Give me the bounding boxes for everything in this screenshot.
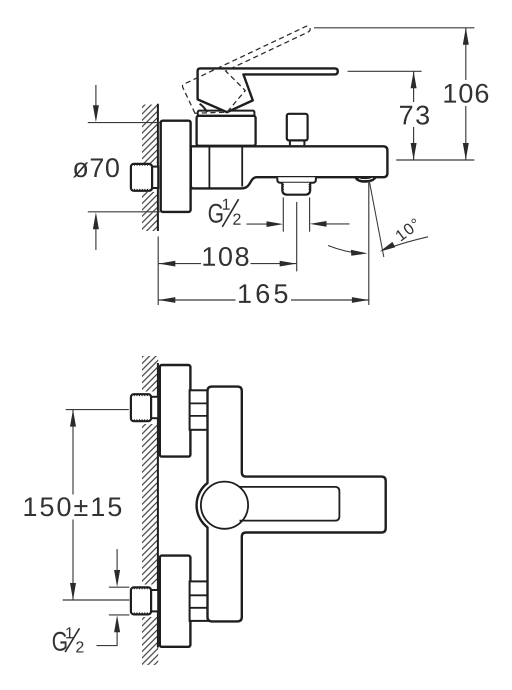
label 108 [203, 247, 248, 266]
lower nipple thread ticks [134, 587, 150, 615]
wall hatching segment 2 [142, 424, 158, 585]
label 150±15 [24, 497, 121, 516]
label 10° [395, 218, 421, 242]
upper flange [160, 365, 191, 457]
G1/2 leader (up arrow + elbow) [97, 632, 118, 646]
arrowhead 165 right [352, 297, 369, 303]
wall face line [157, 363, 159, 648]
fraction slash (top G½) [222, 199, 238, 227]
upper nipple thread ticks [134, 394, 150, 422]
label o70 [73, 158, 119, 177]
10° arc right [387, 237, 429, 249]
dim ø70 arrow up [95, 228, 97, 250]
dim 165 line [158, 299, 368, 301]
small dim extension 2 [109, 614, 129, 616]
label 2 (bottom G½) [76, 641, 83, 652]
dim 106 line [465, 28, 467, 160]
wall face line [157, 104, 159, 231]
label G (top G½) [209, 204, 223, 223]
dim 150 line [72, 410, 74, 600]
valve block [197, 116, 256, 146]
small dim extension 1 [109, 586, 129, 588]
wall hatching segment 3 [142, 617, 158, 665]
aerator (angled outlet) [354, 176, 377, 183]
dim 108 line [158, 263, 296, 265]
diverter neck [290, 140, 305, 145]
arrowhead ø70 top (down) [93, 105, 99, 122]
arrowhead 108 right [280, 261, 297, 267]
cartridge cap [198, 111, 255, 117]
arrowhead 150 top (up) [70, 410, 76, 427]
mixer body outline (column + circle + bar) [197, 387, 386, 622]
faucet body [191, 146, 388, 188]
label 73 [400, 106, 429, 125]
outlet thread (G1/2) [282, 183, 310, 195]
arrowhead 106 top (up) [463, 28, 469, 45]
outlet collar [277, 177, 316, 183]
fraction slash (bottom G½) [65, 628, 79, 652]
handle neck arc [200, 104, 208, 112]
supply nipple collar (wall side) [151, 167, 159, 188]
small dim arrow down line [116, 549, 118, 571]
arrowhead small dim (down) [114, 570, 120, 587]
dim ø70 arrow down [95, 85, 97, 106]
outlet centre extension [296, 202, 298, 272]
thread width right arrow line [326, 223, 350, 225]
label 1 (bottom G½) [66, 627, 73, 638]
wall face extension [157, 237, 159, 306]
wall hatching lower part [142, 192, 158, 231]
lower eccentric union [190, 581, 210, 621]
diverter knob [287, 114, 308, 141]
inner profile in bar [240, 487, 340, 521]
arrowhead 106 bottom (down) [463, 143, 469, 160]
outlet thread ticks [282, 185, 311, 190]
dim ø70 extension lines [88, 122, 160, 124]
dim 150 extension top [66, 409, 129, 411]
aerator highlight [359, 178, 373, 180]
label 165 [239, 284, 287, 303]
10° arc left [328, 246, 361, 254]
dim 106 extension top [314, 27, 474, 29]
arrowhead ø70 bottom (up) [93, 212, 99, 229]
handle lever (raised, dashed) [182, 25, 327, 125]
dim 73 extension (lever) [348, 70, 422, 72]
upper supply nipple [131, 394, 151, 421]
upper nipple collar [151, 397, 159, 418]
lower nipple collar [151, 590, 159, 611]
arrowhead 150 bottom (down) [70, 583, 76, 600]
10° slanted line [369, 181, 384, 257]
body internal line (union / body joint) [208, 146, 210, 188]
handle lever (solid position) [198, 68, 338, 112]
nipple thread ticks [135, 163, 151, 191]
dim 73/106 extension bottom [396, 159, 474, 161]
label G (bottom G½) [53, 632, 67, 651]
cartridge inner circle [201, 482, 248, 529]
lower supply nipple [131, 587, 151, 614]
supply nipple front face [131, 164, 152, 191]
lower flange [160, 556, 191, 647]
arrowhead 73 top (up) [411, 71, 417, 88]
wall flange (escutcheon side view) [161, 121, 191, 212]
arrowhead G1/2 leader (up) [114, 615, 120, 632]
label 106 [444, 84, 488, 103]
arrowhead 165 left [159, 297, 176, 303]
arrowhead thread right (left) [310, 221, 327, 227]
arrowhead 10° arc right (left-pointing) [380, 242, 396, 252]
wall hatching upper part [142, 105, 158, 164]
dim 165 right extension / 10° vertical [368, 182, 370, 306]
dim G1/2 leader line [247, 223, 269, 225]
arrowhead 73 bottom (down) [411, 143, 417, 160]
arrowhead 10° arc left (right-pointing) [351, 250, 368, 256]
dim 150 extension bottom [63, 599, 130, 601]
wall hatching segment 1 [142, 356, 158, 392]
label 2 (top G½) [233, 214, 240, 225]
dim 73 line [413, 71, 415, 160]
label 1 (top G½) [223, 199, 230, 210]
body internal line (spout joint) [241, 146, 243, 186]
arrowhead 108 left [159, 261, 176, 267]
upper eccentric union [190, 390, 210, 430]
arrowhead G1/2 leader (right) [267, 221, 284, 227]
outlet extension right [309, 197, 311, 231]
outlet extension left [282, 197, 284, 231]
